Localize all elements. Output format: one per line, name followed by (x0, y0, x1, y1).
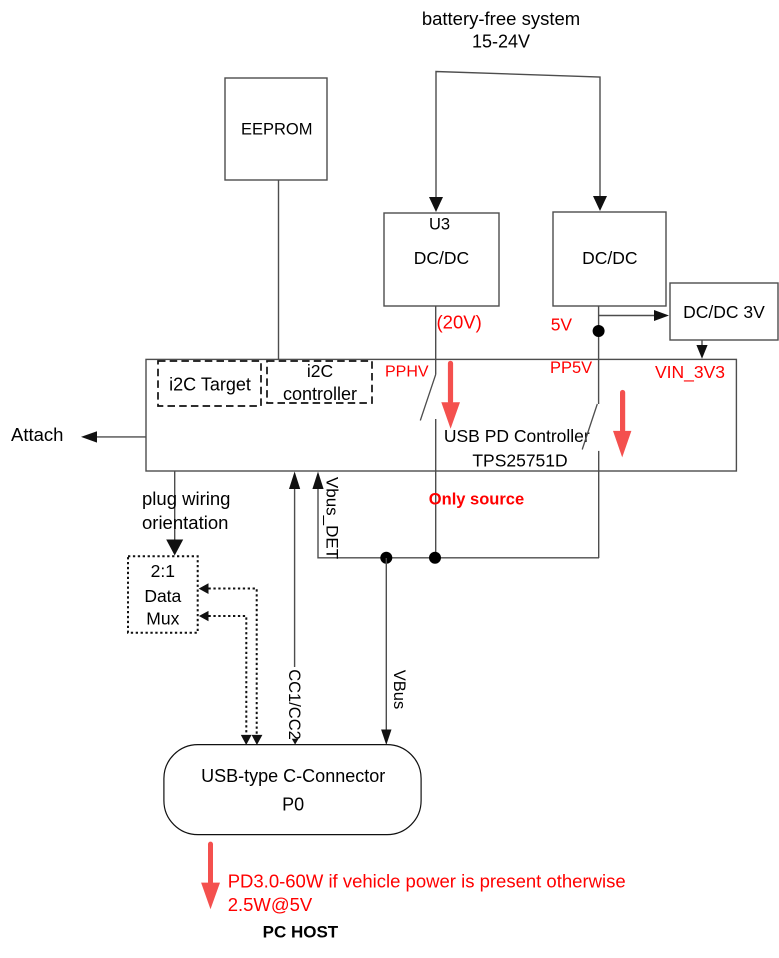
block EEPROM (225, 78, 327, 180)
arrowhead lower dotted into connector (241, 735, 252, 745)
arrowhead into mux upper (199, 583, 209, 594)
block 2:1 Data Mux (128, 556, 198, 632)
block i2C Target (158, 361, 261, 406)
svg-text:battery-free system: battery-free system (422, 8, 580, 29)
wire EEPROM to i2C controller (278, 180, 280, 362)
svg-text:DC/DC: DC/DC (582, 248, 637, 268)
wire data mux lower dotted (209, 616, 247, 734)
wire data mux upper dotted (209, 589, 257, 735)
wire Vbus_DET (318, 489, 599, 558)
arrowhead into U3 DC/DC (429, 197, 443, 212)
wire Attach (97, 436, 146, 438)
wire VBus (385, 558, 387, 730)
svg-text:VIN_3V3: VIN_3V3 (655, 362, 725, 383)
wire PP5V lower (598, 451, 600, 558)
junction dot VBus (380, 552, 392, 564)
red arrow PPHV (441, 361, 460, 429)
arrowhead into DC/DC 3V (654, 310, 669, 321)
arrowhead VIN_3V3 (696, 345, 707, 359)
svg-text:2.5W@5V: 2.5W@5V (228, 894, 313, 915)
svg-text:PD3.0-60W if vehicle power is: PD3.0-60W if vehicle power is present ot… (228, 871, 626, 892)
block U3 DC/DC (384, 213, 499, 306)
svg-text:15-24V: 15-24V (472, 32, 530, 52)
arrowhead CC up (289, 472, 300, 490)
svg-text:P0: P0 (282, 795, 304, 815)
wire plug wiring orientation (174, 471, 176, 541)
wire battery feed split (436, 72, 600, 207)
arrowhead into Data Mux (166, 540, 183, 556)
svg-text:i2C Target: i2C Target (169, 374, 251, 394)
red arrow PC HOST (201, 842, 220, 910)
svg-text:USB-type C-Connector: USB-type C-Connector (201, 766, 385, 786)
svg-text:Attach: Attach (11, 424, 63, 445)
wire CC1/CC2 (294, 487, 296, 737)
svg-text:PC HOST: PC HOST (263, 923, 339, 942)
svg-text:DC/DC: DC/DC (414, 248, 469, 268)
arrowhead into mux lower (199, 611, 209, 621)
arrowhead into right DC/DC (593, 196, 607, 211)
arrowhead CC down small (292, 739, 299, 745)
svg-text:i2C: i2C (307, 361, 333, 381)
svg-text:controller: controller (283, 384, 357, 404)
block DC/DC 5V (553, 212, 666, 306)
label CC1/CC2 (285, 667, 304, 740)
svg-text:USB PD Controller: USB PD Controller (444, 426, 590, 446)
switch blade PP5V (582, 404, 597, 450)
svg-text:PP5V: PP5V (550, 359, 592, 377)
svg-text:Data: Data (144, 586, 181, 606)
block DC/DC 3V (670, 283, 778, 340)
node battery-free system label (422, 8, 580, 52)
svg-text:PPHV: PPHV (385, 364, 429, 381)
svg-text:VBus: VBus (390, 670, 408, 709)
wire 5V branch to DC/DC 3V (599, 315, 656, 317)
svg-text:(20V): (20V) (437, 311, 482, 332)
label plug wiring orientation (142, 488, 230, 533)
junction dot 5V (593, 325, 605, 337)
svg-text:orientation: orientation (142, 512, 228, 533)
wire 5V output (598, 306, 600, 404)
svg-text:CC1/CC2: CC1/CC2 (285, 669, 303, 740)
svg-text:DC/DC 3V: DC/DC 3V (683, 302, 765, 322)
wire U3 output 20V (435, 306, 437, 375)
svg-text:Only source: Only source (429, 491, 524, 509)
svg-text:U3: U3 (429, 216, 450, 234)
switch blade PPHV (420, 375, 435, 421)
block USB-type C-Connector P0 (164, 745, 421, 835)
arrowhead VBus down (381, 730, 391, 746)
svg-text:5V: 5V (551, 315, 573, 335)
block i2C controller (267, 361, 372, 404)
arrowhead Attach (81, 431, 97, 442)
wire DC/DC 3V to controller (701, 340, 703, 347)
red arrow PP5V (613, 390, 631, 458)
svg-text:2:1: 2:1 (151, 561, 175, 581)
arrowhead Vbus_DET up (312, 472, 323, 490)
svg-text:EEPROM: EEPROM (241, 121, 313, 139)
svg-text:Mux: Mux (146, 609, 179, 629)
label PD3.0 note (228, 871, 626, 916)
svg-text:Vbus_DET: Vbus_DET (323, 477, 342, 559)
svg-text:TPS25751D: TPS25751D (472, 450, 567, 470)
arrowhead upper dotted into connector (252, 735, 263, 745)
block USB PD Controller TPS25751D (146, 359, 736, 471)
svg-text:plug wiring: plug wiring (142, 488, 230, 509)
junction dot PPHV (429, 552, 441, 564)
wire PPHV lower (435, 419, 437, 558)
